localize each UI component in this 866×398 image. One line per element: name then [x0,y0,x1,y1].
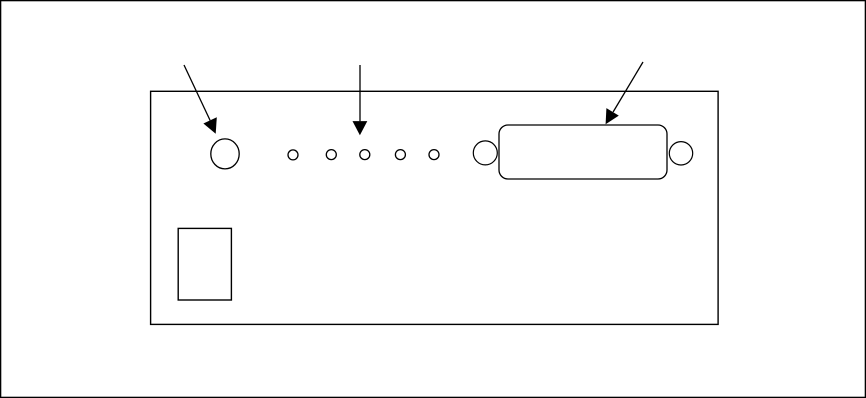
LED 5 [429,150,439,160]
arrow 3 head [606,108,619,124]
arrow 3 shaft [613,62,643,112]
arrow 1 head [203,117,216,134]
LED 4 [395,150,405,160]
rear panel outline [151,91,719,324]
LED 1 [288,150,298,160]
D-sub connector left thumbscrew [473,141,497,165]
LED 3 [360,150,370,160]
D-sub connector body [499,125,667,179]
arrow 1 shaft [184,65,210,120]
LED 2 [326,150,336,160]
power inlet rectangle [178,228,231,300]
round connector [211,139,239,169]
arrow 2 shaft [359,65,361,121]
D-sub connector right thumbscrew [669,142,692,165]
arrow 2 head [353,121,368,135]
